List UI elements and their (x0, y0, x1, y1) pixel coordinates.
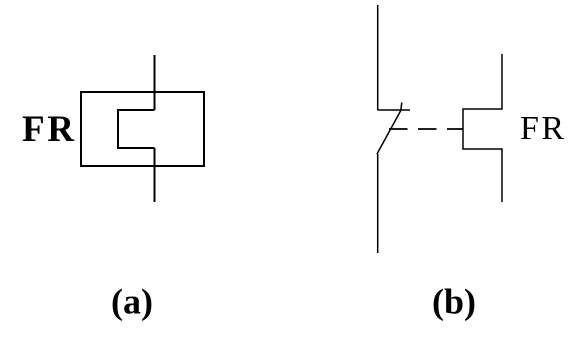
thermal relay heater box FR (81, 92, 204, 166)
svg-text:FR: FR (22, 109, 75, 150)
wire: bottom lead of contact (377, 154, 379, 253)
wire: top lead of FR heater (154, 55, 156, 110)
movable contact blade (377, 103, 402, 155)
svg-text:(a): (a) (111, 282, 153, 322)
fixed contact bar (378, 109, 410, 111)
dashed mechanical link (389, 128, 463, 130)
wire: top lead of contact (377, 5, 379, 110)
wire: heater conductor detour inside box (118, 110, 155, 148)
thermal actuator bracket with leads (463, 54, 502, 202)
svg-text:(b): (b) (432, 282, 476, 322)
wire: bottom lead of FR heater (154, 148, 156, 202)
svg-text:FR: FR (520, 110, 564, 147)
